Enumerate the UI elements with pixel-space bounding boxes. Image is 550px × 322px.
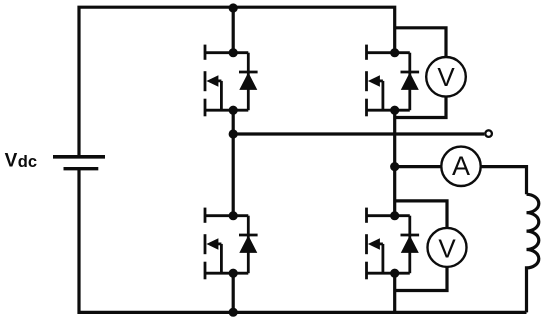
svg-text:dc: dc [18, 153, 37, 171]
svg-text:V: V [437, 62, 455, 92]
svg-text:A: A [452, 151, 470, 181]
svg-text:V: V [5, 150, 18, 171]
svg-text:V: V [438, 233, 456, 263]
